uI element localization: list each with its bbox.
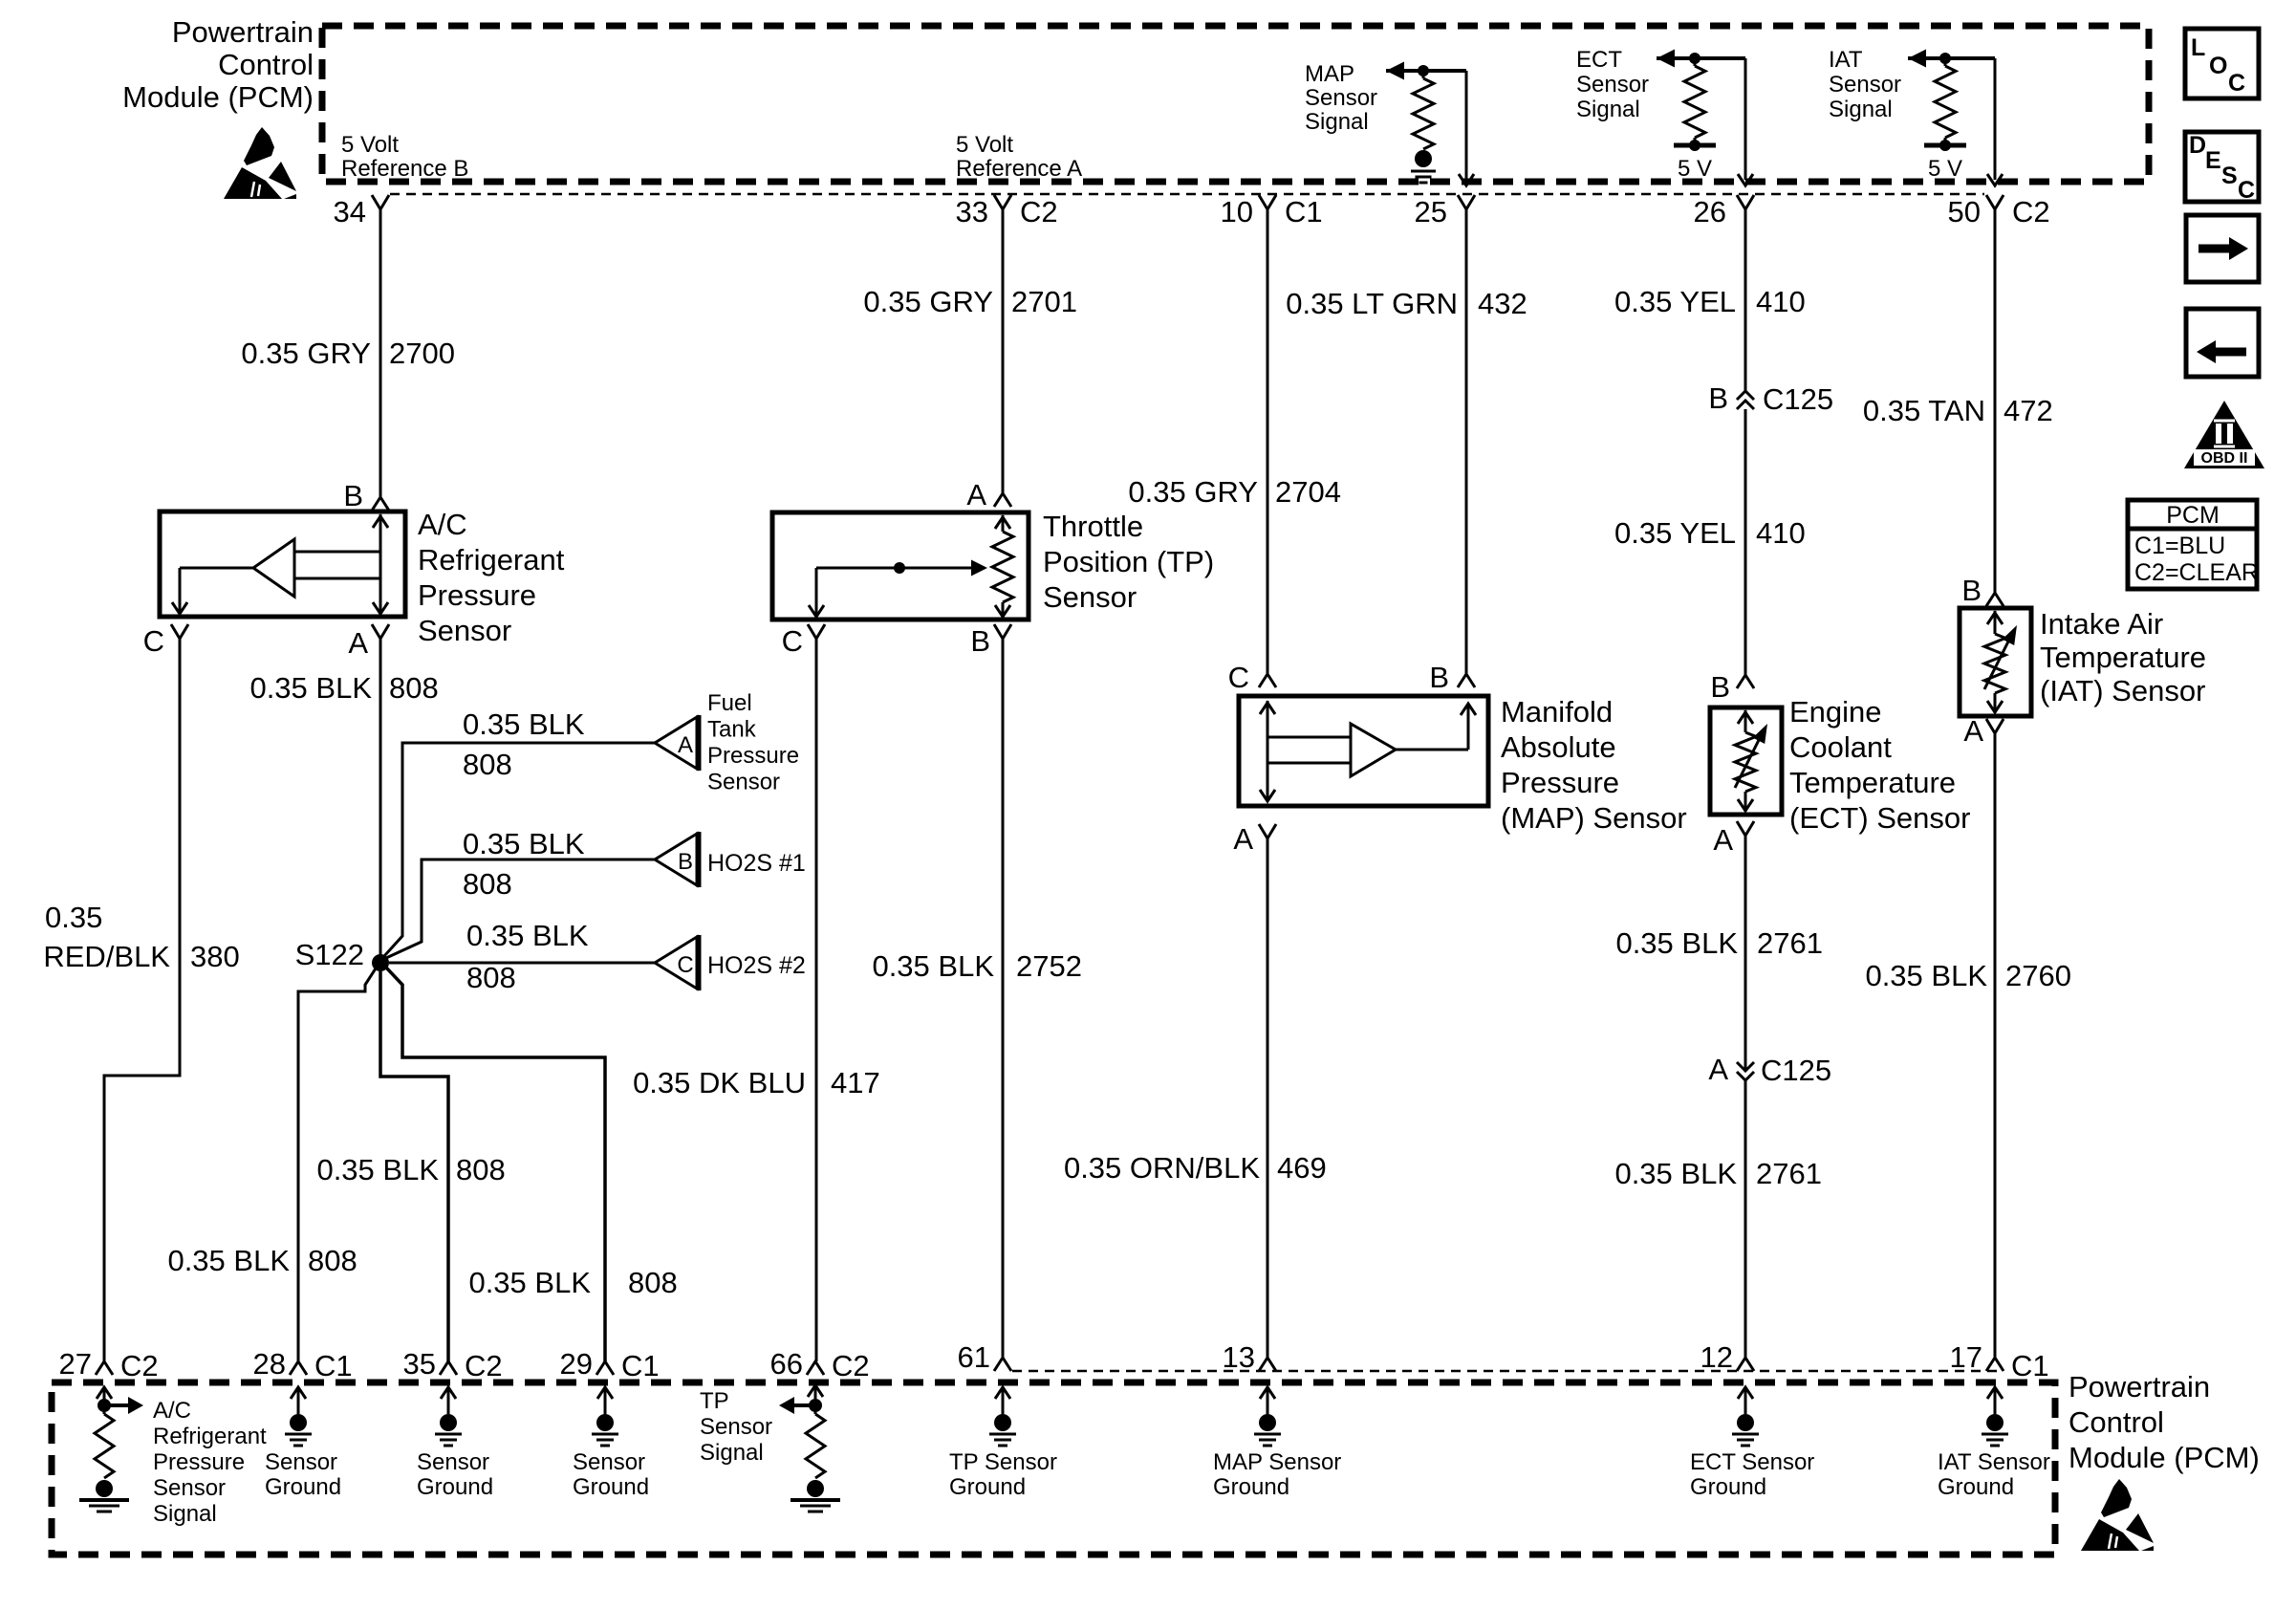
- A/C sensor amplifier: [253, 539, 294, 597]
- svg-text:PCM: PCM: [2166, 502, 2220, 529]
- svg-text:Fuel: Fuel: [707, 690, 752, 716]
- svg-text:Signal: Signal: [1829, 97, 1893, 122]
- svg-text:Signal: Signal: [153, 1501, 217, 1527]
- wire to HO2S #1: [386, 859, 655, 958]
- svg-text:0.35 BLK: 0.35 BLK: [167, 1244, 290, 1277]
- pin 66 input resistor: [814, 1405, 817, 1414]
- svg-text:B: B: [1710, 670, 1730, 704]
- Sensor ground symbol (pin column x=312): [297, 1389, 300, 1414]
- svg-text:Sensor: Sensor: [1829, 72, 1901, 98]
- wire 0.35 BLK 808 (A/C A to S122): [379, 639, 382, 963]
- ECT signal junction dot: [1689, 53, 1700, 64]
- IAT sensor pin A: [1986, 719, 2004, 733]
- svg-text:Sensor: Sensor: [1305, 85, 1377, 111]
- svg-text:Module (PCM): Module (PCM): [2069, 1441, 2260, 1474]
- svg-text:0.35 BLK: 0.35 BLK: [463, 707, 585, 741]
- svg-text:0.35 BLK: 0.35 BLK: [463, 827, 585, 860]
- svg-text:Control: Control: [2069, 1405, 2164, 1439]
- ECT thermistor: [1744, 710, 1747, 732]
- pin 66 junction dot: [809, 1399, 822, 1412]
- svg-text:2704: 2704: [1275, 475, 1341, 509]
- A/C sensor pin B: [372, 497, 389, 511]
- Throttle Position (TP) Sensor box: [772, 512, 1029, 620]
- svg-text:Ground: Ground: [949, 1474, 1026, 1500]
- svg-text:B: B: [1429, 661, 1449, 694]
- svg-text:B: B: [678, 849, 693, 875]
- svg-text:Ground: Ground: [1213, 1474, 1289, 1500]
- svg-text:C2: C2: [1020, 195, 1058, 228]
- pin 12 (PCM bottom): [1737, 1358, 1754, 1371]
- svg-text:L: L: [2191, 34, 2205, 61]
- svg-text:410: 410: [1756, 285, 1806, 318]
- svg-text:Sensor: Sensor: [417, 1449, 489, 1475]
- svg-text:Sensor: Sensor: [573, 1449, 645, 1475]
- pin 27 (PCM bottom): [96, 1361, 113, 1375]
- svg-text:0.35 BLK: 0.35 BLK: [316, 1153, 439, 1186]
- svg-text:RED/BLK: RED/BLK: [43, 940, 170, 973]
- Manifold Absolute Pressure sensor box: [1239, 696, 1488, 806]
- svg-text:Signal: Signal: [1305, 109, 1369, 135]
- svg-text:C1: C1: [621, 1349, 660, 1382]
- svg-text:0.35 GRY: 0.35 GRY: [241, 337, 371, 370]
- wire 0.35 TAN 472 (pin 50 to IAT B): [1994, 209, 1997, 593]
- svg-text:Sensor: Sensor: [700, 1414, 772, 1440]
- svg-text:ECT Sensor: ECT Sensor: [1690, 1449, 1814, 1475]
- svg-text:0.35 BLK: 0.35 BLK: [1614, 1157, 1737, 1190]
- wire 0.35 BLK 2761 (C125 A to pin 12): [1744, 1080, 1747, 1358]
- svg-text:Position (TP): Position (TP): [1043, 545, 1214, 578]
- pin 27 resistor ground: [96, 1480, 113, 1497]
- svg-text:Pressure: Pressure: [707, 743, 799, 769]
- wire 0.35 ORN/BLK 469 (MAP A to pin 13): [1267, 838, 1269, 1358]
- svg-text:A: A: [348, 626, 368, 660]
- svg-text:Ground: Ground: [1690, 1474, 1766, 1500]
- pin 35 (PCM bottom): [440, 1361, 457, 1375]
- svg-text:A: A: [678, 732, 693, 758]
- MAP sensor internal supply: [1267, 701, 1269, 801]
- pin 10 (PCM top): [1259, 195, 1276, 209]
- ECT 5V supply bar: [1694, 138, 1697, 145]
- svg-text:Pressure: Pressure: [418, 578, 536, 612]
- pin 27 input resistor: [103, 1405, 106, 1414]
- svg-text:Coolant: Coolant: [1789, 730, 1892, 764]
- PCM bottom module box (dashed): [52, 1382, 2055, 1555]
- svg-text:Powertrain: Powertrain: [2069, 1370, 2210, 1403]
- svg-text:C1: C1: [1285, 195, 1323, 228]
- HO2S #2 connector C: [655, 937, 697, 989]
- wire 0.35 DK BLU 417 (TP C to pin 66): [815, 639, 818, 1361]
- svg-text:61: 61: [958, 1340, 990, 1374]
- svg-text:C: C: [782, 624, 803, 658]
- svg-text:C2: C2: [2012, 195, 2050, 228]
- wire 0.35 RED/BLK 380 (A/C C to pin 27): [104, 639, 180, 1361]
- IAT signal arrow: [1908, 50, 1926, 68]
- MAP pull-down resistor: [1422, 71, 1425, 78]
- svg-text:(IAT) Sensor: (IAT) Sensor: [2040, 674, 2205, 707]
- IAT signal junction dot: [1939, 53, 1951, 64]
- PCM bottom connector dashed line: [1012, 1370, 1998, 1373]
- svg-text:28: 28: [253, 1347, 286, 1381]
- wire S122 to pin 29: [386, 968, 605, 1361]
- svg-text:TP Sensor: TP Sensor: [949, 1449, 1057, 1475]
- MAP sensor pin B: [1458, 674, 1475, 687]
- PCM connector legend box: [2128, 500, 2257, 589]
- svg-text:33: 33: [956, 195, 988, 228]
- svg-text:Reference B: Reference B: [341, 156, 468, 182]
- svg-text:0.35 BLK: 0.35 BLK: [468, 1266, 591, 1299]
- svg-text:50: 50: [1948, 195, 1981, 228]
- wire pin50 feed: [1994, 58, 1997, 180]
- svg-text:5 Volt: 5 Volt: [341, 132, 399, 158]
- svg-text:5 V: 5 V: [1678, 156, 1712, 182]
- svg-text:C1=BLU: C1=BLU: [2134, 533, 2225, 559]
- pin 28 (PCM bottom): [290, 1361, 307, 1375]
- svg-text:417: 417: [831, 1066, 880, 1099]
- wire pin25 feed: [1465, 71, 1468, 180]
- TP sensor pin B: [994, 624, 1011, 639]
- svg-text:0.35 GRY: 0.35 GRY: [863, 285, 993, 318]
- svg-text:Sensor: Sensor: [153, 1475, 226, 1501]
- svg-text:B: B: [970, 624, 990, 658]
- MAP sensor pin A: [1259, 824, 1276, 838]
- A/C sensor signal line to C: [180, 567, 253, 570]
- svg-text:34: 34: [334, 195, 366, 228]
- svg-text:0.35: 0.35: [45, 901, 102, 934]
- svg-text:Signal: Signal: [1576, 97, 1640, 122]
- svg-text:C2: C2: [465, 1349, 503, 1382]
- svg-text:2761: 2761: [1756, 1157, 1822, 1190]
- OBD II triangle icon: [2184, 401, 2264, 468]
- wire to Fuel Tank Pressure Sensor: [384, 743, 655, 956]
- svg-text:A: A: [1713, 823, 1733, 857]
- wire 0.35 BLK 2752 (TP B to pin 61): [1002, 639, 1005, 1358]
- A/C Refrigerant Pressure Sensor box: [160, 511, 405, 617]
- svg-text:26: 26: [1694, 195, 1726, 228]
- svg-text:O: O: [2209, 53, 2227, 79]
- svg-text:472: 472: [2004, 394, 2053, 427]
- svg-text:66: 66: [770, 1347, 803, 1381]
- TP sensor potentiometer: [1002, 515, 1005, 532]
- PCM top connector dashed line: [390, 193, 1984, 196]
- svg-text:S: S: [2221, 163, 2238, 189]
- Engine Coolant Temperature sensor box: [1710, 707, 1782, 815]
- svg-text:Temperature: Temperature: [1789, 766, 1956, 799]
- ECT pull-up resistor: [1694, 58, 1697, 66]
- pin 29 (PCM bottom): [596, 1361, 614, 1375]
- ECT Sensor ground symbol (pin column x=1826): [1744, 1389, 1747, 1414]
- ECT sensor pin A: [1737, 821, 1754, 836]
- back arrow icon box: [2186, 309, 2259, 377]
- svg-text:2701: 2701: [1011, 285, 1077, 318]
- svg-text:25: 25: [1415, 195, 1447, 228]
- wire 0.35 GRY 2700 (pin 34 to A/C B): [379, 209, 382, 497]
- svg-text:808: 808: [463, 748, 512, 781]
- pin 66 (PCM bottom): [807, 1361, 824, 1375]
- wire 0.35 BLK 2760 (IAT A to pin 17): [1994, 733, 1997, 1358]
- pin 26 (PCM top): [1737, 195, 1754, 209]
- svg-text:Manifold: Manifold: [1501, 695, 1613, 729]
- MAP signal arrow: [1386, 62, 1404, 80]
- forward arrow icon box: [2186, 215, 2259, 282]
- svg-text:D: D: [2189, 132, 2206, 159]
- svg-text:IAT Sensor: IAT Sensor: [1938, 1449, 2050, 1475]
- svg-text:A/C: A/C: [153, 1398, 191, 1424]
- ECT sensor pin B: [1737, 675, 1754, 688]
- svg-text:Pressure: Pressure: [1501, 766, 1619, 799]
- svg-text:Sensor: Sensor: [265, 1449, 337, 1475]
- svg-text:2761: 2761: [1757, 926, 1823, 960]
- svg-text:27: 27: [59, 1347, 92, 1381]
- LOC icon box: [2185, 29, 2259, 98]
- Sensor ground symbol (pin column x=469): [447, 1389, 450, 1414]
- svg-text:0.35 BLK: 0.35 BLK: [466, 919, 589, 952]
- svg-text:808: 808: [308, 1244, 357, 1277]
- svg-text:410: 410: [1756, 516, 1806, 550]
- svg-text:B: B: [1708, 381, 1728, 415]
- svg-text:B: B: [1961, 574, 1982, 607]
- svg-text:Refrigerant: Refrigerant: [418, 543, 565, 577]
- svg-text:Sensor: Sensor: [707, 770, 780, 795]
- svg-text:0.35 YEL: 0.35 YEL: [1614, 516, 1736, 550]
- IAT pull-up resistor: [1944, 58, 1947, 66]
- svg-text:808: 808: [628, 1266, 678, 1299]
- svg-text:0.35 TAN: 0.35 TAN: [1863, 394, 1985, 427]
- svg-text:Refrigerant: Refrigerant: [153, 1424, 267, 1449]
- svg-text:Temperature: Temperature: [2040, 641, 2206, 674]
- svg-text:808: 808: [463, 867, 512, 901]
- TP sensor pin A: [994, 493, 1011, 507]
- splice S122 dot: [372, 954, 389, 971]
- svg-text:A/C: A/C: [418, 508, 467, 541]
- MAP signal junction dot: [1418, 65, 1429, 76]
- pin 61 (PCM bottom): [994, 1358, 1011, 1371]
- svg-text:Ground: Ground: [265, 1474, 341, 1500]
- svg-text:Signal: Signal: [700, 1440, 764, 1466]
- svg-text:HO2S #2: HO2S #2: [707, 952, 806, 979]
- wire S122 to pin 35: [380, 971, 448, 1361]
- TP Sensor ground symbol (pin column x=1049): [1002, 1389, 1005, 1414]
- IAT 5V supply bar: [1944, 138, 1947, 145]
- svg-text:C125: C125: [1763, 382, 1833, 416]
- svg-text:0.35 BLK: 0.35 BLK: [249, 671, 372, 705]
- svg-text:ECT: ECT: [1576, 47, 1622, 73]
- IAT sensor pin B: [1986, 593, 2004, 606]
- wire S122 to pin 28: [298, 968, 376, 1361]
- MAP resistor ground: [1415, 150, 1432, 167]
- pin 13 (PCM bottom): [1259, 1358, 1276, 1371]
- Intake Air Temperature sensor box: [1960, 608, 2031, 716]
- svg-text:TP: TP: [700, 1388, 729, 1414]
- svg-text:E: E: [2205, 147, 2221, 174]
- svg-text:OBD II: OBD II: [2201, 450, 2248, 467]
- svg-text:2700: 2700: [389, 337, 455, 370]
- pin 33 (PCM top): [994, 195, 1011, 209]
- pin 50 (PCM top): [1986, 195, 2004, 209]
- svg-text:29: 29: [560, 1347, 593, 1381]
- MAP sensor output to B: [1396, 749, 1468, 751]
- svg-text:Absolute: Absolute: [1501, 730, 1616, 764]
- svg-text:380: 380: [190, 940, 240, 973]
- svg-text:C125: C125: [1761, 1054, 1831, 1087]
- svg-text:Pressure: Pressure: [153, 1449, 245, 1475]
- svg-text:Tank: Tank: [707, 717, 757, 743]
- svg-text:B: B: [343, 479, 363, 512]
- svg-text:808: 808: [456, 1153, 506, 1186]
- svg-text:0.35 ORN/BLK: 0.35 ORN/BLK: [1064, 1151, 1260, 1185]
- svg-text:0.35 YEL: 0.35 YEL: [1614, 285, 1736, 318]
- pin 27 signal arrow right: [104, 1403, 128, 1407]
- svg-text:35: 35: [403, 1347, 436, 1381]
- svg-text:Ground: Ground: [1938, 1474, 2014, 1500]
- MAP sensor amplifier: [1351, 724, 1396, 776]
- svg-text:0.35 GRY: 0.35 GRY: [1128, 475, 1258, 509]
- MAP sensor pin C: [1259, 674, 1276, 687]
- svg-text:Engine: Engine: [1789, 695, 1882, 729]
- svg-text:A: A: [966, 478, 986, 511]
- PCM top module box (dashed): [322, 26, 2149, 182]
- TP sensor pin C: [808, 624, 825, 639]
- wire 0.35 YEL 410 (C125 B to ECT B): [1744, 409, 1747, 675]
- svg-text:A: A: [1708, 1053, 1728, 1086]
- svg-text:0.35 BLK: 0.35 BLK: [872, 949, 994, 983]
- svg-text:C: C: [2228, 70, 2245, 97]
- pin 17 (PCM bottom): [1986, 1358, 2004, 1371]
- svg-text:17: 17: [1950, 1340, 1982, 1374]
- wire to HO2S #2: [389, 962, 655, 965]
- svg-text:Ground: Ground: [417, 1474, 493, 1500]
- pin 66 signal arrow left: [791, 1403, 815, 1407]
- svg-text:C: C: [143, 624, 164, 658]
- svg-text:HO2S #1: HO2S #1: [707, 850, 806, 877]
- svg-text:(MAP) Sensor: (MAP) Sensor: [1501, 801, 1687, 835]
- Fuel Tank Pressure Sensor connector A: [655, 717, 697, 769]
- pin 66 resistor ground: [807, 1480, 824, 1497]
- pin 34 (PCM top): [372, 195, 389, 209]
- wire 0.35 GRY 2701 (pin 33 to TP A): [1002, 209, 1005, 493]
- svg-text:(ECT) Sensor: (ECT) Sensor: [1789, 801, 1970, 835]
- wire 0.35 BLK 2761 (ECT A to C125 A): [1744, 836, 1747, 1070]
- svg-text:10: 10: [1221, 195, 1253, 228]
- A/C sensor pin A: [372, 624, 389, 639]
- svg-text:808: 808: [389, 671, 439, 705]
- svg-text:Sensor: Sensor: [1576, 72, 1649, 98]
- wire 0.35 LT GRN 432 (pin 25 to MAP B): [1465, 209, 1468, 674]
- svg-text:C: C: [1228, 661, 1249, 694]
- MAP Sensor ground symbol (pin column x=1326): [1267, 1389, 1269, 1414]
- wire pin26 feed: [1744, 58, 1747, 180]
- svg-text:12: 12: [1700, 1340, 1733, 1374]
- svg-text:A: A: [1233, 822, 1253, 856]
- svg-text:C1: C1: [2011, 1349, 2049, 1382]
- svg-text:C2: C2: [832, 1349, 870, 1382]
- svg-text:MAP Sensor: MAP Sensor: [1213, 1449, 1341, 1475]
- A/C sensor internal supply line: [379, 514, 382, 614]
- svg-text:Intake Air: Intake Air: [2040, 607, 2163, 641]
- IAT thermistor: [1994, 611, 1997, 634]
- svg-text:5 Volt: 5 Volt: [956, 132, 1013, 158]
- svg-text:432: 432: [1478, 287, 1527, 320]
- svg-text:Powertrain: Powertrain: [172, 15, 314, 49]
- pin 66 TP signal input arrow: [814, 1387, 817, 1399]
- svg-text:808: 808: [466, 961, 516, 994]
- svg-text:C2: C2: [120, 1349, 159, 1382]
- wire 0.35 YEL 410 (pin 26 to C125 B): [1744, 209, 1747, 391]
- svg-text:2760: 2760: [2005, 959, 2071, 992]
- svg-text:Ground: Ground: [573, 1474, 649, 1500]
- svg-text:C1: C1: [314, 1349, 353, 1382]
- A/C sensor pin C: [171, 624, 188, 639]
- svg-text:0.35 BLK: 0.35 BLK: [1865, 959, 1987, 992]
- wire 0.35 GRY 2704 (pin 10 to MAP C): [1267, 209, 1269, 674]
- svg-text:13: 13: [1223, 1340, 1255, 1374]
- svg-text:2752: 2752: [1016, 949, 1082, 983]
- svg-text:IAT: IAT: [1829, 47, 1863, 73]
- IAT Sensor ground symbol (pin column x=2087): [1994, 1389, 1997, 1414]
- svg-text:MAP: MAP: [1305, 61, 1354, 87]
- svg-text:A: A: [1963, 714, 1983, 748]
- pin 27 junction dot: [97, 1399, 111, 1412]
- connector C125 terminal A: [1737, 1062, 1754, 1071]
- HO2S #1 connector B: [655, 834, 697, 885]
- svg-text:C: C: [677, 952, 693, 978]
- ESD symbol top-left: [244, 127, 274, 165]
- svg-text:C2=CLEAR: C2=CLEAR: [2134, 559, 2259, 586]
- svg-text:Sensor: Sensor: [1043, 580, 1137, 614]
- svg-text:469: 469: [1277, 1151, 1327, 1185]
- TP sensor wiper arrow: [816, 567, 971, 570]
- svg-text:0.35 BLK: 0.35 BLK: [1615, 926, 1738, 960]
- svg-text:Module (PCM): Module (PCM): [122, 80, 314, 114]
- svg-text:0.35 LT GRN: 0.35 LT GRN: [1286, 287, 1458, 320]
- Sensor ground symbol (pin column x=633): [604, 1389, 607, 1414]
- svg-text:C: C: [2238, 177, 2255, 204]
- svg-text:5 V: 5 V: [1928, 156, 1962, 182]
- ESD symbol bottom-right: [2101, 1479, 2132, 1517]
- svg-text:Throttle: Throttle: [1043, 510, 1143, 543]
- pin 27 A/C signal input arrow: [103, 1389, 106, 1401]
- DESC icon box: [2185, 132, 2259, 202]
- svg-text:Reference A: Reference A: [956, 156, 1082, 182]
- connector C125 terminal B: [1737, 391, 1754, 400]
- svg-text:Sensor: Sensor: [418, 614, 511, 647]
- pin 25 (PCM top): [1458, 195, 1475, 209]
- svg-text:S122: S122: [295, 938, 364, 971]
- svg-text:0.35 DK BLU: 0.35 DK BLU: [633, 1066, 806, 1099]
- svg-text:Control: Control: [218, 48, 314, 81]
- ECT signal arrow: [1657, 50, 1675, 68]
